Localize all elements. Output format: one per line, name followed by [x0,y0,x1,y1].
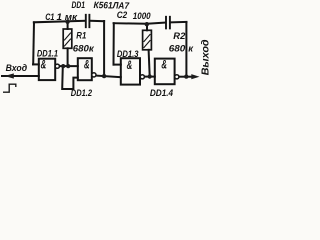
wire: gate1 upper input stub [33,63,39,65]
wire: loop1 top, left segment to C1 [34,21,85,23]
input pulse symbol [3,84,16,92]
wire: loop2 right vertical down to output node [185,22,187,76]
wire: gate1-gate2 link [60,65,78,67]
wire: loop2 top, left segment to C2 [114,23,166,24]
node: output feedback junction [184,74,188,78]
svg-text:1000: 1000 [133,11,152,21]
inversion bubble DD1.1 output [55,64,59,68]
arrowhead: output arrow [191,74,199,79]
svg-text:DD1.1: DD1.1 [37,48,58,59]
node: R2 top junction [145,22,149,26]
arrowhead: input arrow [5,73,14,78]
wire: input (Вход) line [2,75,39,77]
wire: R2 top lead [146,24,148,31]
node: R2 bottom junction [148,74,152,78]
wire: loop1 top, C1 to right corner [90,20,104,22]
capacitor C1 right plate [88,15,90,27]
wire: DD1.2 output to DD1.3 input [96,76,121,78]
resistor R1 body [63,29,72,48]
wire: loop2 top, C2 to right corner [171,21,187,24]
inversion bubble DD1.4 output [175,75,179,79]
svg-text:DD1.2: DD1.2 [71,88,93,99]
svg-text:R1: R1 [76,29,86,40]
capacitor C2 right plate [169,17,171,29]
resistor R1 hatch [65,33,71,46]
gate DD1.1 box [39,59,55,80]
svg-text:С2: С2 [117,10,128,20]
wire: gate3 upper input stub [114,64,121,66]
svg-text:к: к [188,43,194,54]
svg-text:DD1.4: DD1.4 [150,88,174,99]
svg-text:С1: С1 [45,12,54,22]
capacitor C1 left plate [85,15,87,27]
wire: R1 top lead [67,21,69,29]
wire: DD1.3 output to DD1.4 input [144,76,154,78]
wire: loop2 left vertical [113,23,115,64]
wire: loop1 left vertical [32,22,35,64]
resistor R2 hatch [144,35,150,48]
gate DD1.4 box [155,59,175,85]
node: loop1 feedback junction on DD1.2 output [102,74,106,78]
inversion bubble DD1.2 output [92,73,96,77]
svg-text:&: & [41,60,47,72]
svg-text:Выход: Выход [200,39,211,75]
wire: R2 bottom lead [149,50,150,77]
svg-text:&: & [161,59,167,71]
svg-text:&: & [127,60,133,72]
wire: loop1 right vertical down to DD1.2 output [103,21,105,76]
svg-text:R2: R2 [173,30,186,41]
svg-text:1 мк: 1 мк [57,12,79,22]
svg-text:DD1: DD1 [72,0,86,10]
svg-text:&: & [84,60,90,72]
wire: second-input loop under DD1.1/DD1.2 [62,66,78,89]
wire: output line to arrow [179,76,193,78]
inversion bubble DD1.3 output [140,75,144,79]
node: R1 bottom junction [66,64,70,68]
node: lower-loop branch junction [61,64,65,68]
svg-text:DD1.3: DD1.3 [117,49,139,60]
svg-text:680: 680 [169,43,186,54]
svg-text:Вход: Вход [6,63,28,74]
capacitor C2 left plate [165,17,167,29]
wire: R1 bottom lead [67,48,69,66]
gate DD1.3 box [121,58,140,84]
svg-text:К561ЛА7: К561ЛА7 [93,0,129,11]
node: R1 top junction [65,20,69,24]
svg-text:680к: 680к [73,42,95,53]
resistor R2 body [143,30,152,50]
gate DD1.2 box [78,58,92,80]
